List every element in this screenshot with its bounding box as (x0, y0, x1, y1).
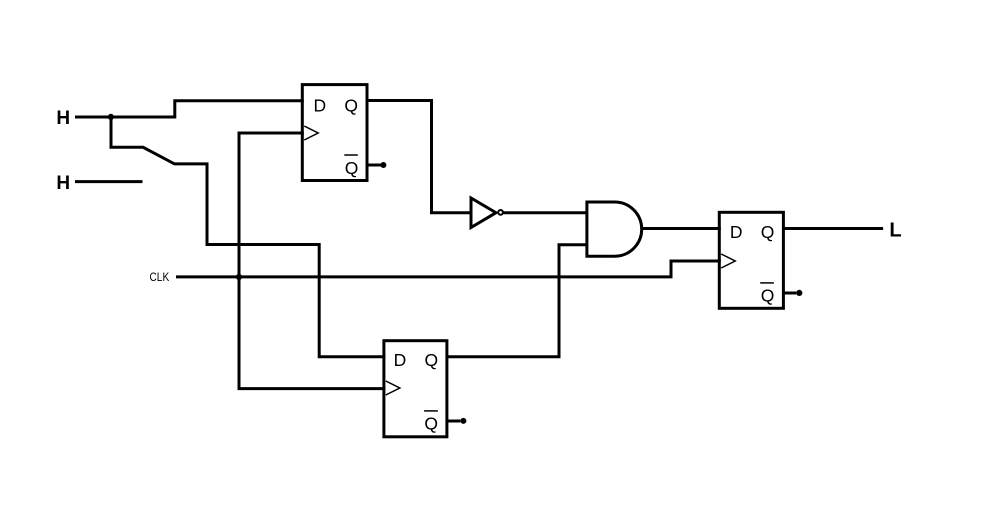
svg-text:Q: Q (344, 96, 358, 116)
svg-text:D: D (394, 350, 407, 370)
svg-text:Q: Q (424, 350, 438, 370)
svg-text:H: H (56, 173, 70, 194)
svg-text:CLK: CLK (150, 270, 170, 284)
svg-text:H: H (56, 108, 70, 129)
svg-text:Q: Q (761, 286, 775, 306)
svg-text:Q: Q (761, 222, 775, 242)
svg-text:L: L (889, 219, 901, 241)
svg-text:D: D (730, 222, 743, 242)
svg-text:Q: Q (345, 158, 359, 178)
svg-text:Q: Q (424, 414, 438, 434)
svg-text:D: D (313, 96, 326, 116)
